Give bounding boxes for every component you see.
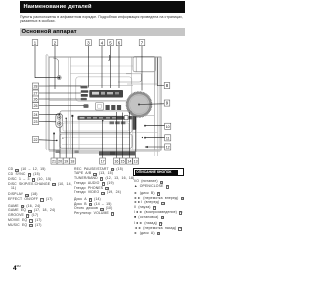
tape deck A xyxy=(60,111,132,133)
wire 11 xyxy=(145,137,165,139)
svg-text:24: 24 xyxy=(34,113,38,117)
callout 15 xyxy=(120,158,126,164)
callout 3 xyxy=(86,40,92,46)
wire 9 xyxy=(140,103,165,106)
svg-text:12: 12 xyxy=(166,146,170,150)
wire 4 xyxy=(101,46,103,88)
wire 18 xyxy=(71,117,73,158)
wire 23 xyxy=(39,121,56,123)
callout 24 xyxy=(32,112,38,118)
game bar xyxy=(78,116,133,125)
wire 16 xyxy=(115,112,117,158)
callout 2 xyxy=(52,40,58,46)
svg-text:18: 18 xyxy=(70,160,74,164)
callout 26 xyxy=(32,96,38,102)
wire 7 xyxy=(141,46,143,91)
mid button row xyxy=(84,103,122,111)
right column header box xyxy=(133,168,184,176)
svg-text:23: 23 xyxy=(34,120,38,124)
record pill buttons xyxy=(56,113,63,127)
middle text column xyxy=(74,167,134,216)
title bar xyxy=(20,1,185,13)
svg-text:22: 22 xyxy=(34,138,38,142)
callout 28 xyxy=(32,83,38,89)
wire 20 xyxy=(59,128,61,158)
callout lines xyxy=(35,46,165,158)
panel division lines xyxy=(49,57,157,150)
section bar xyxy=(20,28,185,37)
right text column xyxy=(134,179,184,235)
subtitle xyxy=(20,15,196,23)
button panel outline xyxy=(76,77,132,101)
display band xyxy=(81,86,124,101)
wire 1 xyxy=(35,46,58,78)
svg-text:16: 16 xyxy=(114,160,118,164)
device outline xyxy=(46,54,161,152)
callout 1 xyxy=(32,40,38,46)
bottom strip xyxy=(56,150,136,156)
callout 19 xyxy=(63,158,69,164)
callout 14 xyxy=(126,158,132,164)
callout 10 xyxy=(165,123,171,129)
wire 10 xyxy=(145,125,165,127)
callout 7 xyxy=(139,40,145,46)
svg-text:13: 13 xyxy=(134,160,138,164)
power button xyxy=(57,76,61,80)
svg-text:14: 14 xyxy=(127,160,131,164)
callout 25 xyxy=(32,103,38,109)
svg-text:25: 25 xyxy=(34,104,38,108)
svg-text:17: 17 xyxy=(101,160,105,164)
callout 8 xyxy=(164,83,170,89)
wire 17 xyxy=(102,121,104,158)
callout 21 xyxy=(51,158,57,164)
svg-text:28: 28 xyxy=(34,85,38,89)
callout 18 xyxy=(69,158,75,164)
callout 6 xyxy=(116,40,122,46)
page number xyxy=(13,264,21,272)
wire 27 xyxy=(39,92,81,94)
callout 16 xyxy=(113,158,119,164)
wire 12 xyxy=(145,146,165,148)
tuner window top right xyxy=(118,57,156,83)
wire 15 xyxy=(121,113,123,158)
CD tray panel xyxy=(53,55,133,76)
svg-text:19: 19 xyxy=(64,160,68,164)
callout boxes top xyxy=(32,40,171,165)
callout 27 xyxy=(32,90,38,96)
callout 13 xyxy=(133,158,139,164)
callout 9 xyxy=(164,100,170,106)
wire 28 xyxy=(39,85,81,87)
wire 6 xyxy=(118,46,120,88)
callout 4 xyxy=(99,40,105,46)
wire 5 xyxy=(110,46,112,88)
wire 19 xyxy=(65,119,67,158)
volume knob xyxy=(126,92,152,118)
wire 22 xyxy=(39,139,57,142)
callout 12 xyxy=(165,144,171,150)
svg-text:20: 20 xyxy=(58,160,62,164)
wire 25 xyxy=(39,105,84,107)
wire 2 xyxy=(54,46,56,89)
wire 26 xyxy=(39,98,81,100)
tape deck B xyxy=(60,134,132,148)
wire 8 xyxy=(157,58,164,86)
svg-text:26: 26 xyxy=(34,98,38,102)
callout 5 xyxy=(108,40,114,46)
svg-text:27: 27 xyxy=(34,92,38,96)
wire 21 xyxy=(53,134,55,158)
callout 11 xyxy=(165,135,171,141)
svg-text:15: 15 xyxy=(121,160,125,164)
wire 13 xyxy=(135,117,137,158)
wire 24 xyxy=(39,113,60,115)
callout 23 xyxy=(32,119,38,125)
connector dots xyxy=(53,77,148,149)
right lower panel xyxy=(132,58,158,157)
svg-text:10: 10 xyxy=(166,125,170,129)
wire 14 xyxy=(128,112,130,158)
svg-text:11: 11 xyxy=(166,137,170,141)
callout 20 xyxy=(57,158,63,164)
svg-text:21: 21 xyxy=(52,160,56,164)
left text column xyxy=(8,167,72,227)
callout 22 xyxy=(32,137,38,143)
wire 3 xyxy=(88,46,90,88)
callout 17 xyxy=(100,158,106,164)
